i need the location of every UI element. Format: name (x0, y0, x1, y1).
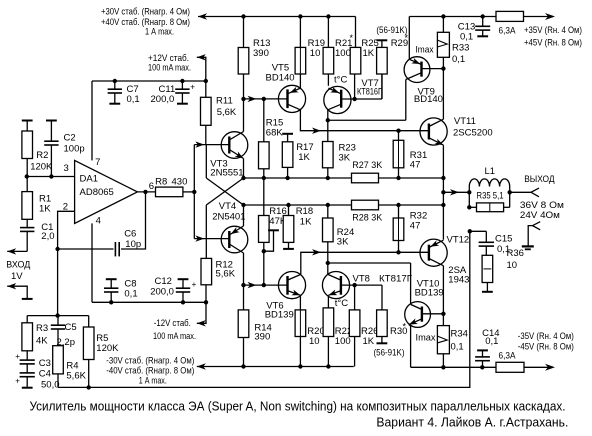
power rail -35V (411, 366, 553, 368)
svg-text:0,1: 0,1 (127, 94, 140, 105)
node R15-wire (262, 176, 266, 180)
node zobel tap (468, 229, 472, 233)
svg-text:120K: 120K (30, 161, 53, 172)
wire X cross1 (205, 145, 207, 178)
resistor R20 (295, 310, 306, 337)
wire VT5 base (244, 98, 288, 100)
wire VT8 collector (327, 263, 329, 274)
transistor VT9 (404, 57, 430, 83)
node VT3e (241, 176, 245, 180)
wire VT10 emitter (409, 325, 411, 368)
capacitor C14 (477, 349, 488, 351)
svg-text:3K: 3K (337, 237, 349, 248)
resistor R17 (287, 134, 289, 142)
wire R16-VT6base (263, 251, 265, 285)
svg-text:1943: 1943 (448, 274, 469, 285)
svg-text:R8: R8 (155, 176, 167, 187)
wire VT8 base (341, 284, 382, 286)
transistor VT10 (405, 302, 431, 328)
resistor R18 (288, 205, 290, 216)
svg-text:R3: R3 (36, 323, 48, 334)
node pin2-C6 (55, 247, 59, 251)
svg-text:100: 100 (335, 48, 351, 59)
node R32-lower (396, 203, 400, 207)
wire VT5 collector (300, 110, 429, 131)
svg-text:0,1: 0,1 (124, 288, 137, 299)
svg-text:0,1: 0,1 (485, 336, 498, 347)
node R32-base (396, 250, 400, 254)
node L1-R35-left (467, 205, 471, 209)
node rail-C13 (481, 14, 485, 18)
wire opamp +input (27, 176, 75, 178)
svg-text:1K: 1K (300, 217, 312, 228)
svg-text:24V 4Ом: 24V 4Ом (520, 210, 560, 221)
resistor R4 (53, 346, 64, 374)
resistor R15 (263, 99, 265, 142)
capacitor C7 (114, 81, 116, 89)
svg-text:C12: C12 (155, 276, 172, 287)
wire fb top node (27, 315, 88, 317)
wire VT4 collector (243, 253, 245, 285)
arrow to VT4 base (195, 235, 204, 241)
svg-text:200,0: 200,0 (151, 94, 175, 105)
node R31-upper (396, 176, 400, 180)
resistor R31 (398, 131, 400, 141)
node R31-base (396, 129, 400, 133)
svg-text:390: 390 (254, 332, 270, 343)
resistor R11 (205, 81, 207, 97)
node bus-C11 (180, 79, 184, 83)
node VT12c-R34 (441, 312, 445, 316)
node out-C6 (143, 190, 147, 194)
svg-text:+: + (15, 352, 20, 361)
node R17-wire (285, 176, 289, 180)
svg-text:R34: R34 (451, 329, 468, 340)
svg-text:BD140: BD140 (414, 94, 443, 105)
node VT8base-R26 (352, 283, 356, 287)
wire VT9 emitter (408, 17, 410, 60)
resistor R25 (355, 47, 357, 74)
resistor R5 (88, 316, 90, 327)
resistor R29 (377, 47, 388, 74)
wire pin2 (58, 211, 75, 315)
svg-text:R33: R33 (452, 42, 469, 53)
svg-text:*: * (403, 322, 407, 332)
wire VT8c-VT10c (328, 262, 411, 264)
svg-text:Вариант 4. Лайков А. г.Астрах: Вариант 4. Лайков А. г.Астрахань. (376, 415, 568, 430)
svg-text:AD8065: AD8065 (80, 187, 114, 198)
wire VT11 emitter (442, 145, 444, 178)
node VT4e (241, 203, 245, 207)
node R24-lower (326, 203, 330, 207)
wire output column (442, 178, 444, 240)
wire pin4 (91, 223, 93, 302)
svg-text:+35V (Rн. 4 Ом): +35V (Rн. 4 Ом) (524, 25, 582, 36)
svg-text:5,6K: 5,6K (66, 370, 86, 381)
transistor VT12 (420, 239, 447, 266)
svg-text:50,0: 50,0 (41, 379, 60, 390)
svg-text:R27 3K: R27 3K (352, 160, 383, 171)
wire input (7, 250, 27, 252)
svg-text:C2: C2 (64, 133, 76, 144)
svg-text:Imax: Imax (416, 332, 436, 343)
node bus-C8 (109, 300, 113, 304)
power rail +30V/+40V stab (198, 16, 356, 18)
svg-text:C5: C5 (65, 322, 77, 333)
node bus-R11 (204, 79, 208, 83)
svg-text:1 А max.: 1 А max. (145, 26, 174, 37)
terminal C2 top (46, 120, 57, 122)
node rail-R13 (241, 14, 245, 18)
resistor R27 (352, 173, 379, 183)
terminal R17 top (282, 133, 293, 135)
node bus-R12 (204, 300, 208, 304)
svg-text:(56-91K): (56-91K) (374, 347, 405, 358)
svg-text:1 А max.: 1 А max. (139, 375, 167, 386)
wire VT12 collector (442, 266, 444, 326)
svg-text:КТ816Г: КТ816Г (357, 87, 382, 98)
svg-text:5,6K: 5,6K (216, 268, 236, 279)
svg-text:3K: 3K (339, 152, 351, 163)
svg-text:1K: 1K (39, 203, 51, 214)
transistor VT8 (322, 272, 349, 299)
wire VT6 base (244, 284, 288, 286)
svg-text:120K: 120K (96, 343, 119, 354)
svg-text:DA1: DA1 (80, 174, 98, 185)
node R2-R1 (25, 174, 29, 178)
svg-text:1K: 1K (298, 152, 310, 163)
wire R8 out (183, 191, 194, 193)
svg-text:R36: R36 (507, 248, 524, 259)
svg-text:2SC5200: 2SC5200 (453, 128, 493, 139)
wire VT5 emitter (299, 74, 301, 88)
svg-text:BD139: BD139 (415, 287, 444, 298)
resistor R19 (299, 17, 301, 48)
node bus-C7 (113, 79, 117, 83)
arrow -35V rail (545, 364, 555, 371)
node base-R15 (262, 97, 266, 101)
svg-text:1K: 1K (363, 336, 375, 347)
svg-text:R28 3K: R28 3K (352, 213, 383, 224)
svg-text:BD139: BD139 (265, 310, 294, 321)
node VT8c (326, 261, 330, 265)
svg-text:VT4: VT4 (219, 201, 236, 212)
wire VT11 collector (442, 69, 444, 120)
svg-text:6,3А: 6,3А (499, 25, 517, 36)
svg-text:100: 100 (335, 336, 351, 347)
node rail-C14 (480, 365, 484, 369)
svg-text:0,1: 0,1 (452, 54, 465, 65)
capacitor C13 (482, 17, 484, 27)
svg-text:3: 3 (64, 163, 69, 174)
transistor VT11 (420, 118, 447, 145)
wire VT4 emitter (243, 205, 245, 226)
svg-text:L1: L1 (485, 166, 496, 177)
resistor R3 (26, 316, 28, 323)
node rail-R21 (326, 14, 330, 18)
node R13-VT5base (241, 97, 245, 101)
svg-text:2,0: 2,0 (41, 231, 54, 242)
svg-text:R2: R2 (36, 150, 48, 161)
transistor VT7 (324, 86, 351, 113)
arrow input VHOD (7, 248, 16, 254)
svg-text:0,1: 0,1 (460, 31, 473, 42)
wire VT9 base (422, 68, 444, 70)
capacitor C8 (106, 278, 117, 280)
node rail-R22 (326, 364, 330, 368)
svg-text:0,1: 0,1 (451, 342, 464, 353)
node R23-upper (326, 176, 330, 180)
svg-text:Усилитель мощности класса ЭА (: Усилитель мощности класса ЭА (Super A, N… (30, 399, 566, 414)
node VT9base-R33 (441, 66, 445, 70)
svg-text:430: 430 (172, 176, 188, 187)
terminal R2 top (22, 120, 33, 122)
svg-text:100 mA max.: 100 mA max. (153, 331, 196, 342)
node R16 bottom (262, 249, 266, 253)
node L1-out-left (467, 190, 471, 194)
svg-text:R18: R18 (296, 206, 313, 217)
wire VT4 base (194, 238, 229, 240)
wire VT10 base (422, 313, 444, 315)
resistor R22 (323, 308, 334, 337)
wire VT8 emitter (327, 295, 329, 308)
node bus-R5 (87, 385, 91, 389)
terminal output fork (531, 188, 539, 197)
wire VT6 emitter (299, 295, 301, 310)
svg-text:-12V стаб.: -12V стаб. (154, 318, 191, 329)
arrow input gnd (7, 283, 16, 289)
capacitor C12 (178, 278, 189, 280)
svg-text:ВЫХОД: ВЫХОД (524, 174, 555, 185)
node base-R16 (262, 283, 266, 287)
wire VT3 collector (243, 99, 245, 132)
svg-text:+30V стаб. (Rнагр. 4 Ом): +30V стаб. (Rнагр. 4 Ом) (101, 6, 190, 17)
arrow to VT5 base (248, 96, 257, 102)
node rail-R19 (298, 14, 302, 18)
resistor R13 (243, 17, 245, 48)
wire upper signal rail (244, 177, 352, 179)
terminal R29 top (377, 39, 388, 41)
resistor R28 (352, 200, 379, 210)
svg-text:47: 47 (410, 159, 421, 170)
node rail-R34 (441, 365, 445, 369)
capacitor C2 (50, 121, 52, 142)
arrow -12V (197, 320, 206, 326)
svg-text:BD140: BD140 (266, 73, 295, 84)
wire VT3 emitter (243, 159, 245, 179)
node out-mid (441, 190, 445, 194)
capacitor C15 (470, 230, 487, 232)
inductor L1 (469, 179, 509, 187)
svg-text:R11: R11 (216, 95, 233, 106)
node VT7c (326, 118, 330, 122)
svg-text:68K: 68K (266, 127, 284, 138)
capacitor C11 (181, 81, 183, 89)
resistor R34 (437, 326, 449, 354)
node R14-VT6base (241, 283, 245, 287)
resistor R32 (398, 205, 400, 218)
svg-text:C4: C4 (39, 369, 51, 380)
terminal R16 tap (264, 230, 274, 251)
op-amp DA1 (75, 160, 138, 223)
wire VT3 base (194, 144, 229, 146)
resistor R14 (243, 285, 245, 310)
svg-text:C15: C15 (495, 233, 512, 244)
node L1-out-right (508, 190, 512, 194)
wire VT6 collector (301, 252, 429, 274)
svg-text:5,6K: 5,6K (217, 107, 237, 118)
node VT12e (441, 203, 445, 207)
svg-text:VT8: VT8 (353, 273, 370, 284)
resistor R36 (482, 255, 493, 282)
node rail-R14 (241, 364, 245, 368)
node rail-R20 (298, 364, 302, 368)
wire VT7c-VT9c (328, 119, 406, 121)
svg-text:4: 4 (96, 216, 101, 227)
resistor R2 (26, 121, 28, 132)
wire to output term (510, 191, 531, 193)
arrow out (450, 189, 459, 195)
arrow +12V (197, 54, 206, 60)
transistor VT4 (221, 226, 248, 253)
node bus-C12 (181, 300, 185, 304)
svg-text:t°C: t°C (334, 74, 347, 85)
svg-text:1K: 1K (363, 48, 375, 59)
resistor R33 (442, 17, 444, 33)
wire pin6 out (137, 191, 155, 193)
svg-text:t°C: t°C (335, 298, 348, 309)
wire VT7 collector (327, 110, 329, 120)
power rail +35V (409, 16, 553, 18)
node VT7base-R25 (352, 97, 356, 101)
svg-text:100p: 100p (64, 144, 85, 155)
svg-text:C6: C6 (124, 228, 136, 239)
svg-text:КТ817Г: КТ817Г (379, 273, 412, 284)
capacitor C5 (57, 316, 59, 326)
capacitor C3 (20, 359, 35, 361)
arrow VT5c to VT11 (312, 128, 321, 134)
svg-text:1V: 1V (11, 271, 23, 282)
svg-text:10: 10 (310, 48, 321, 59)
wire L1 left bracket (468, 187, 470, 208)
arrow -30V rail (197, 363, 206, 369)
wire ground bus (58, 231, 470, 387)
svg-text:200,0: 200,0 (150, 287, 174, 298)
wire +12V feed (197, 57, 206, 81)
svg-text:+: + (190, 83, 195, 92)
svg-text:VT11: VT11 (454, 116, 476, 127)
arrow to VT6 base (248, 282, 257, 288)
svg-text:*: * (350, 33, 354, 43)
fuse bottom (496, 362, 524, 372)
resistor R24 (327, 205, 329, 218)
arrow +30V rail (198, 13, 207, 19)
node C2-in (49, 174, 53, 178)
wire +12V bus (92, 80, 206, 82)
svg-text:6,3А: 6,3А (499, 351, 517, 362)
svg-text:10: 10 (309, 336, 320, 347)
capacitor C6 (58, 248, 114, 250)
power rail -30V/-40V stab (197, 366, 354, 368)
terminal return fork (533, 222, 541, 230)
wire lower signal rail (244, 204, 352, 206)
svg-text:R35 5,1: R35 5,1 (477, 191, 504, 202)
terminal input gnd (7, 286, 27, 299)
svg-text:(56-91K): (56-91K) (376, 25, 407, 36)
resistor R23 (327, 120, 329, 141)
wire -12V feed (197, 302, 206, 323)
arrow +35V rail (545, 13, 555, 20)
svg-text:ВХОД: ВХОД (6, 260, 31, 271)
svg-text:2N5401: 2N5401 (212, 212, 245, 223)
svg-text:7: 7 (95, 157, 100, 168)
svg-text:+45V (Rн. 8 Ом): +45V (Rн. 8 Ом) (524, 37, 582, 48)
svg-text:C3: C3 (39, 358, 51, 369)
svg-text:6: 6 (149, 181, 154, 192)
capacitor C4 (26, 364, 28, 373)
node R8-column (192, 190, 196, 194)
node rail-R33 (441, 14, 445, 18)
svg-text:4K: 4K (36, 336, 48, 347)
resistor R1 (22, 192, 33, 220)
svg-text:10: 10 (507, 260, 518, 271)
svg-text:100 mA max.: 100 mA max. (148, 63, 191, 74)
svg-text:10p: 10p (125, 239, 141, 250)
node fb-pin2 (55, 313, 59, 317)
node VT11e (441, 176, 445, 180)
svg-text:VT12: VT12 (447, 235, 470, 246)
node R18-wire (286, 203, 290, 207)
resistor R21 (327, 17, 329, 48)
fuse top (496, 11, 524, 21)
resistor R12 (205, 239, 207, 259)
wire signal column (193, 145, 195, 239)
svg-text:390: 390 (253, 48, 269, 59)
resistor R8 (156, 187, 183, 197)
resistor R26 (354, 285, 356, 310)
svg-text:+: + (192, 280, 197, 289)
transistor VT5 (278, 85, 305, 112)
resistor R30 (377, 310, 388, 337)
arrow to VT3 base (195, 141, 204, 147)
svg-text:+: + (15, 376, 20, 385)
capacitor C1 (20, 227, 34, 229)
resistor R35 (477, 203, 504, 212)
transistor VT3 (221, 132, 248, 159)
arrow VT6c to VT12 (312, 249, 321, 255)
svg-text:47: 47 (410, 220, 421, 231)
svg-text:Imax: Imax (416, 45, 434, 56)
wire out to L1 (443, 191, 469, 193)
svg-text:-45V (Rн. 8 Ом): -45V (Rн. 8 Ом) (518, 341, 574, 352)
wire X cross2 (206, 178, 243, 205)
resistor R16 (263, 178, 265, 216)
transistor VT6 (278, 272, 305, 299)
wire -12V bus (92, 301, 206, 303)
svg-text:2N5551: 2N5551 (210, 167, 243, 178)
wire VT7 base (341, 98, 382, 100)
wire L1 right bracket (509, 187, 511, 208)
